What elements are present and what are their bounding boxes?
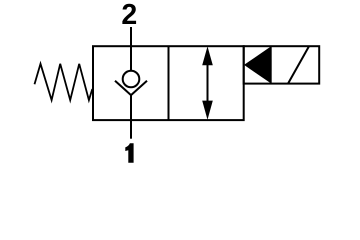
check valve upstream line [130,46,132,71]
spring [35,64,93,100]
check valve ball [123,71,140,88]
flow arrow head down [202,101,213,120]
port 2 line [130,27,132,46]
flow arrow head up [202,46,213,65]
check valve seat [115,81,147,95]
solenoid armature triangle [244,46,272,84]
flow arrow shaft [207,62,209,104]
port label 1 [125,143,133,163]
solenoid box [244,46,320,83]
position divider [168,46,170,120]
solenoid diagonal [288,46,309,83]
svg-text:2: 2 [121,0,137,31]
port 1 line [130,120,132,139]
valve body envelope [93,46,244,120]
check valve downstream line [130,95,132,120]
